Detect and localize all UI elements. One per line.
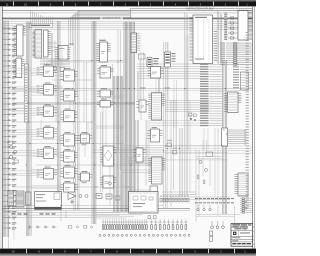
diodes D1-D4 row <box>28 226 57 229</box>
gate U57 <box>96 194 102 199</box>
wire mesh center lower <box>12 48 230 200</box>
net label U32 <box>101 99 107 100</box>
gate U18c <box>173 151 177 154</box>
net label U30 <box>101 65 107 66</box>
wire instruction bus box <box>130 9 252 19</box>
resistor R7 <box>198 175 199 179</box>
IC U27 tall narrow <box>222 128 228 146</box>
wire bundle right-mid verticals <box>180 128 183 196</box>
transistor Q7 <box>205 169 208 172</box>
wire mesh upper right <box>137 64 200 78</box>
net label U25 <box>65 165 71 166</box>
hatch right of U6 <box>249 11 253 40</box>
net label U14 <box>45 146 51 147</box>
wire bus into U6 <box>240 9 247 11</box>
net label U12 <box>45 104 51 105</box>
net label U20 <box>65 68 71 69</box>
resistors R1-R6 row <box>12 213 55 214</box>
gate U59 <box>115 196 120 200</box>
resistor R8 <box>204 180 205 184</box>
IC U41 hatched dense <box>16 191 24 207</box>
wire mesh mid right <box>165 146 253 153</box>
wire pair crossing center <box>12 89 253 91</box>
wire drops to bottom border <box>9 218 15 249</box>
net label U250 <box>82 132 88 133</box>
capacitor C3 polarized <box>210 231 213 241</box>
net label U8 right <box>165 88 171 89</box>
capacitors C1 C2 <box>148 216 156 219</box>
IC U4 buffer <box>44 30 51 57</box>
net labels right column 2 <box>233 64 253 89</box>
wire left margin bus <box>3 21 8 238</box>
IC U40 hatched <box>8 191 14 206</box>
wire instruction data bus top <box>3 9 253 11</box>
IC U20 gate <box>60 70 77 81</box>
block decode PROM <box>241 72 249 90</box>
jumper W1 <box>69 226 79 229</box>
transistor Q6 <box>199 161 202 164</box>
wire pairs near U8 <box>138 72 160 100</box>
company logo <box>233 232 236 235</box>
wire address bus branch staircase <box>69 10 131 210</box>
IC U3 ROM (dense pins) <box>32 30 41 59</box>
IC U7 bus driver <box>224 92 241 113</box>
net label U11 <box>45 83 51 84</box>
net label U21 <box>65 88 71 89</box>
wire lower right links <box>196 140 222 186</box>
IC U22 gate <box>60 111 77 122</box>
connector J3 pads <box>102 219 187 229</box>
connector J2 pin rows <box>221 43 253 66</box>
IC U8a gate <box>148 67 164 79</box>
IC U10 flip-flop <box>37 66 57 77</box>
IC U1 CPU support <box>14 25 26 56</box>
connector J1 edge pins <box>3 28 16 230</box>
net label U5 below <box>100 67 107 68</box>
IC U250 gate <box>78 134 93 143</box>
IC U31 gate <box>97 90 114 97</box>
wire data bus branch right <box>217 10 222 63</box>
wire band below U3 <box>40 58 70 66</box>
net label U16a <box>152 127 158 128</box>
net label ADDRESS BUS <box>100 16 123 20</box>
wire U4 to U50 <box>48 43 58 51</box>
IC U17 gate <box>136 100 149 112</box>
net label U5 <box>99 40 106 41</box>
relay K1 box <box>206 152 213 157</box>
gate U51 <box>139 54 146 59</box>
wire col C vertical pair <box>101 112 102 192</box>
IC U5 decoder <box>96 42 110 62</box>
IC U9 shift register <box>148 157 165 184</box>
wire bus drop mid-right <box>185 12 188 196</box>
oscillator U52 <box>147 58 152 67</box>
DIP switch SW1 row <box>160 196 189 202</box>
wire address bus heavy <box>3 17 253 19</box>
transistor Q5 <box>85 195 88 198</box>
IC U33 comparator <box>100 146 117 166</box>
net label U18b <box>167 140 172 141</box>
net label U22 <box>65 109 71 110</box>
IC U2 latch <box>13 58 24 78</box>
gate U54 <box>52 67 56 71</box>
IC U32 gate <box>97 101 114 108</box>
IC U42 <box>26 192 32 205</box>
wire drop to title block <box>196 206 240 224</box>
net labels right of CPU <box>214 31 218 61</box>
net label U251 <box>82 171 88 172</box>
bus label strip vertical <box>24 64 28 122</box>
net label U31 <box>101 88 107 89</box>
IC U21 gate <box>60 90 77 101</box>
net label U24 <box>65 149 71 150</box>
wire junctions <box>8 60 227 209</box>
test points TP4-TP6 <box>197 205 211 211</box>
wire verticals center-right <box>156 75 177 150</box>
wire feeders column B <box>31 73 60 189</box>
transistor Q8 <box>109 182 112 185</box>
resistor network RN1 ladder <box>131 33 141 53</box>
wire feeders column C <box>111 69 114 180</box>
IC U23 gate <box>60 134 77 146</box>
net label U50 <box>69 44 74 45</box>
IC U30 gate <box>97 67 114 78</box>
IC U50 address latch <box>55 46 71 61</box>
block ROM array CPU <box>189 15 212 64</box>
net label U8 left <box>140 88 146 89</box>
comparator diamond in U33 <box>104 150 112 161</box>
net label CPU ADDRESS BUS <box>30 23 53 27</box>
test points TP1-TP3 <box>211 221 225 229</box>
crystal oscillator Y1 block <box>35 192 62 210</box>
net label U10 <box>45 64 51 65</box>
wire address fan into U3 <box>31 10 53 24</box>
connector rows below U28 <box>240 198 253 214</box>
IC U16a gate <box>148 129 163 142</box>
gate U58 <box>106 194 112 199</box>
IC U18 gate <box>133 148 146 162</box>
IC U8 counter <box>148 93 164 121</box>
IC U14 flip-flop <box>37 148 57 159</box>
net label U26 <box>65 181 71 182</box>
net labels left of U6 <box>224 13 227 40</box>
IC U11 flip-flop <box>37 85 57 96</box>
net labels right signal column <box>200 64 223 126</box>
net label U15 <box>45 167 51 168</box>
wire weave mid <box>120 146 228 166</box>
wire verticals center <box>56 30 199 222</box>
net labels bottom right block <box>195 198 234 203</box>
IC U28 latch <box>234 173 248 196</box>
IC U15 flip-flop <box>37 169 57 180</box>
wire runs U8 to label column <box>150 101 210 126</box>
wire bus bundle B2 <box>92 21 96 224</box>
connector J3 solder pads <box>99 234 190 236</box>
net label U13 <box>45 126 51 127</box>
test points TP7 TP8 <box>245 201 247 209</box>
wire data bus group <box>3 22 253 30</box>
ground symbol <box>70 200 73 204</box>
wire bus bundle B1 <box>26 22 31 236</box>
IC U251 gate <box>78 173 93 181</box>
jumper W2 <box>84 226 93 229</box>
net labels right edge column <box>246 32 249 209</box>
small box U19 <box>150 186 158 197</box>
op-amp A1 <box>68 193 76 200</box>
net labels clock cluster <box>153 53 175 64</box>
wire main vertical bus <box>114 22 139 212</box>
title block <box>231 224 253 247</box>
IC U12 flip-flop <box>37 106 57 117</box>
IC U34 gate <box>100 176 117 188</box>
net label U23 <box>65 132 71 133</box>
IC U25 gate <box>60 167 77 178</box>
wire interconnects <box>3 61 191 218</box>
oscillator U56 <box>165 52 171 67</box>
timing box <box>129 192 159 214</box>
wire staircase to pads <box>96 213 150 218</box>
net label U18c <box>173 148 178 149</box>
wire verticals lower center <box>41 35 218 216</box>
transistor Q4 <box>79 195 82 198</box>
wire bus line <box>3 12 253 14</box>
wire rows with test points <box>228 129 246 144</box>
logic cluster right-mid <box>189 113 197 121</box>
wire bus bundle B6 <box>51 21 62 192</box>
gate U18b <box>167 143 172 147</box>
IC U24 gate <box>60 151 77 162</box>
IC U13 flip-flop <box>37 128 57 139</box>
IC U6 register <box>228 11 248 41</box>
IC U26 gate <box>60 183 77 192</box>
wire feeders column A <box>9 68 40 175</box>
wire bus bundle B5 <box>223 60 227 214</box>
wire bus line 2 <box>3 19 253 21</box>
wire bus bundle B4 <box>164 42 168 208</box>
gate U55 <box>60 67 64 71</box>
title block stubs <box>253 227 255 244</box>
transistor cluster Q1-Q3 <box>8 141 19 163</box>
